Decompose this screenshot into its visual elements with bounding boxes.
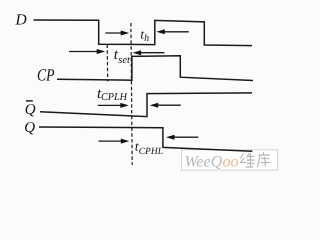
arrow left toward Q-bar rising edge xyxy=(150,103,181,108)
watermark character wei xyxy=(240,153,255,167)
signal D waveform xyxy=(34,20,253,46)
svg-text:CPLH: CPLH xyxy=(101,92,128,103)
signal Q-bar label overbar xyxy=(26,100,33,102)
svg-text:D: D xyxy=(15,12,27,29)
signal Q-bar waveform xyxy=(40,93,252,117)
svg-text:set: set xyxy=(118,55,131,66)
svg-text:Q: Q xyxy=(24,120,35,136)
arrow right toward CP edge (t_CPLH) xyxy=(98,103,129,108)
svg-text:h: h xyxy=(144,33,149,44)
arrow left toward Q falling edge xyxy=(166,135,198,140)
dashed line at CP rising edge xyxy=(131,23,132,165)
arrow right toward CP edge (t_CPHL) xyxy=(99,139,130,144)
svg-text:CP: CP xyxy=(37,65,55,84)
signal Q waveform xyxy=(39,127,252,151)
arrow left toward D rising edge (t_h right side) xyxy=(156,29,189,34)
dashed line at setup start xyxy=(106,45,109,82)
svg-text:oo: oo xyxy=(223,153,239,170)
arrow right toward setup dashed line (t_set left side) xyxy=(69,49,105,54)
svg-text:Q: Q xyxy=(25,102,36,118)
svg-text:WeeQ: WeeQ xyxy=(185,153,223,170)
arrow left toward CP edge (t_set right side) xyxy=(133,50,165,55)
svg-text:CPHL: CPHL xyxy=(139,147,163,157)
signal CP waveform xyxy=(57,56,253,81)
watermark box xyxy=(182,150,278,170)
watermark character ku xyxy=(258,152,271,167)
arrow right toward CP edge (t_h left side) xyxy=(105,31,129,36)
